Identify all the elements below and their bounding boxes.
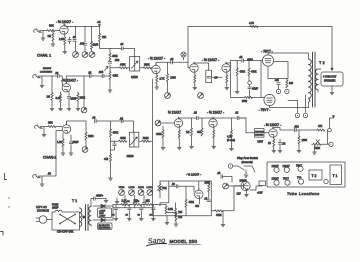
- tube V2b: [190, 62, 198, 72]
- filter cap 2: [129, 205, 133, 208]
- coupling cap .05 to V4: [231, 60, 242, 62]
- input jack J4: [33, 175, 41, 179]
- svg-text:470K: 470K: [120, 63, 126, 66]
- terminal circle trem B+: [328, 128, 332, 132]
- svg-text:1K: 1K: [268, 142, 271, 145]
- wire into box: [127, 67, 130, 69]
- osc right vertical: [210, 181, 212, 216]
- cathode resistor 470 osc: [199, 199, 201, 205]
- svg-text:40MF+: 40MF+: [96, 196, 104, 198]
- edge artifact bottom left: [1, 232, 4, 236]
- svg-text:1MEG: 1MEG: [131, 76, 138, 79]
- T2 box in chart: [309, 170, 322, 180]
- wire to transistor supply: [223, 186, 249, 211]
- speed pot arrow: [158, 186, 163, 191]
- socket 1: [274, 167, 279, 172]
- V3 cathode resistor: [226, 72, 228, 75]
- ground below J3: [43, 127, 45, 134]
- V9 plate wire: [273, 128, 295, 131]
- svg-text:10K: 10K: [146, 200, 151, 203]
- svg-text:SPEAKER: SPEAKER: [324, 80, 336, 83]
- svg-text:.002: .002: [115, 59, 120, 62]
- V7 cathode resistor 470: [178, 127, 180, 130]
- cap .02 on junction wire: [122, 47, 124, 50]
- tube V1b: [62, 82, 70, 92]
- wire to tone box: [111, 120, 122, 122]
- svg-text:.05: .05: [217, 172, 221, 175]
- svg-text:Tube Locations: Tube Locations: [287, 192, 320, 196]
- plate load resistor 100K: [167, 62, 169, 73]
- svg-text:+40MF: +40MF: [99, 216, 106, 218]
- tone stack ground: [108, 62, 111, 64]
- svg-text:50K: 50K: [163, 187, 168, 190]
- svg-text:CHAN-2: CHAN-2: [43, 156, 56, 160]
- svg-text:T 2: T 2: [319, 60, 325, 65]
- resistor 470K chan2: [109, 129, 111, 137]
- ground right: [222, 211, 224, 224]
- resistor 4.7K 5watt: [231, 118, 233, 130]
- wire cap onward: [172, 61, 188, 63]
- socket 2: [284, 167, 289, 172]
- svg-text:.02: .02: [120, 43, 124, 46]
- svg-text:TREB: TREB: [119, 187, 125, 189]
- cap .01 driver2: [237, 116, 239, 119]
- input jack J3: [35, 125, 43, 129]
- plate wire to cap: [156, 62, 171, 65]
- pot row 3: [138, 190, 144, 196]
- svg-text:470K: 470K: [216, 214, 222, 217]
- wire cap to resistor: [296, 129, 317, 131]
- wire J4 up: [39, 131, 62, 177]
- svg-text:40: 40: [112, 215, 115, 217]
- grounds mid: [191, 136, 193, 146]
- tone pot below: [167, 82, 169, 93]
- edge speck a: [8, 197, 9, 198]
- screen terminal circle: [248, 81, 252, 85]
- splitter left vertical: [230, 61, 232, 98]
- svg-text:+12V: +12V: [257, 192, 263, 195]
- svg-text:DRIVER: DRIVER: [255, 135, 263, 137]
- svg-text:7BY7: 7BY7: [296, 165, 303, 168]
- cap inside box: [207, 76, 210, 78]
- screen wire V4: [268, 62, 288, 79]
- V7 cathode ground: [178, 138, 180, 147]
- reverb unit box: [255, 129, 265, 138]
- long wire down from V2a to driver row: [152, 79, 154, 120]
- T2 primary winding: [309, 59, 312, 102]
- ground 1M row2: [51, 101, 53, 109]
- cathode cap 25MF row2: [68, 92, 70, 96]
- pot row 4: [147, 190, 153, 196]
- electrolytic can box: [98, 208, 112, 218]
- output terminal with dot: [329, 142, 333, 146]
- ground grid driver: [162, 138, 164, 147]
- T2 secondary winding: [315, 69, 318, 90]
- svg-text:4.7K: 4.7K: [249, 22, 254, 25]
- transistor Q1: [241, 181, 250, 190]
- wire pot to tube: [161, 122, 174, 124]
- edge artifact mark: [5, 174, 7, 180]
- V8 cathode resistor: [213, 127, 215, 130]
- logo underline swoosh: [147, 243, 167, 246]
- rail onward: [157, 205, 166, 207]
- V7 plate wire: [179, 117, 214, 120]
- wire plug to switch: [47, 212, 55, 220]
- wiper arrow tone stack: [105, 66, 109, 70]
- V2b ground: [194, 83, 196, 87]
- svg-text:(5 watt): (5 watt): [227, 139, 235, 142]
- volume pot chan2: [85, 140, 87, 146]
- svg-text:T 1: T 1: [72, 199, 77, 203]
- svg-text:470K: 470K: [120, 137, 126, 140]
- rectifier diode 2: [93, 219, 101, 221]
- svg-text:10K: 10K: [178, 211, 183, 214]
- pot treble chan1: [82, 52, 88, 58]
- V9 grounds: [273, 147, 275, 150]
- tube V3: [222, 62, 230, 72]
- splitter ground cone: [236, 76, 238, 91]
- svg-text:T 1: T 1: [333, 174, 338, 178]
- grid resistor 470K into box: [112, 67, 119, 69]
- T1 core: [86, 205, 89, 231]
- wire reverb box to V9 grid: [264, 132, 269, 134]
- input jack J2: [33, 75, 41, 79]
- resistor 470K osc: [185, 186, 187, 199]
- svg-text:BRIGHT: BRIGHT: [43, 68, 52, 70]
- cathode resistor 1.5K: [62, 133, 64, 139]
- coupling box between V2b and V3: [206, 70, 212, 82]
- svg-text:470K: 470K: [156, 133, 162, 136]
- socket 6: [298, 179, 303, 184]
- svg-text:SOURCE: SOURCE: [37, 209, 49, 213]
- first filter cap: [94, 197, 96, 200]
- svg-text:MODEL 250: MODEL 250: [170, 239, 198, 244]
- input pot driver: [155, 120, 161, 126]
- coupling cap .02 chan1: [73, 40, 76, 42]
- T1 box in chart: [330, 165, 342, 185]
- svg-text:.005: .005: [80, 43, 85, 46]
- wire to cap .005: [91, 75, 102, 77]
- svg-text:LOUDNESS: LOUDNESS: [40, 71, 53, 73]
- foot switch jack: [233, 166, 255, 174]
- speed pot resistor: [159, 181, 161, 184]
- plate resistor row2: [77, 92, 79, 94]
- cathode resistor row2: [60, 92, 62, 94]
- tone stack resistor 470K: [109, 48, 111, 53]
- pot wiper arrow: [131, 137, 138, 145]
- V9 cathode cap: [279, 139, 281, 142]
- T1 center tap dot: [82, 216, 85, 219]
- svg-text:2.2K: 2.2K: [122, 200, 127, 203]
- svg-text:25MF: 25MF: [71, 98, 78, 101]
- T1 primary winding: [80, 208, 82, 226]
- svg-text:LOUD: LOUD: [147, 187, 153, 189]
- plate wire row2: [66, 76, 89, 84]
- wire to tube: [151, 67, 152, 69]
- pot bass chan1: [89, 52, 95, 58]
- box to V3 grid wire: [212, 76, 223, 78]
- T2 core: [313, 52, 316, 107]
- volume pot row2 wire: [83, 76, 85, 107]
- filter res 2: [133, 203, 141, 205]
- secondary wires to speaker box: [318, 69, 321, 92]
- svg-text:2.2K: 2.2K: [59, 38, 64, 41]
- bottom resistor horizontal: [245, 96, 253, 98]
- wire up with arrow: [330, 118, 334, 128]
- wire cap .01 into reverb box: [239, 118, 255, 133]
- cap .005: [83, 44, 86, 46]
- small socket near T2: [324, 179, 328, 183]
- pot row 2: [129, 190, 135, 196]
- svg-text:220K: 220K: [93, 44, 99, 47]
- B+ dropping line: [99, 26, 101, 33]
- socket 3: [298, 166, 303, 171]
- output tube V4: [262, 55, 273, 66]
- arrow into box: [331, 68, 333, 70]
- tube V1 half 12AX7: [60, 24, 68, 34]
- svg-text:.05: .05: [48, 173, 52, 176]
- resistor 10K osc: [175, 203, 177, 209]
- svg-text:25MF: 25MF: [252, 88, 259, 91]
- switch dots: [59, 214, 61, 216]
- switch top wire: [52, 212, 80, 230]
- ground V2a cathode: [156, 83, 158, 86]
- bus wire under pots: [113, 206, 153, 208]
- grid wire J2: [59, 76, 62, 86]
- filter cap 3: [141, 205, 145, 208]
- top rail: [188, 26, 332, 28]
- silicon rect box: [98, 223, 113, 230]
- wire long from V2a area: [152, 120, 154, 216]
- tube V8: [209, 117, 217, 127]
- V2b plate wire to box: [194, 63, 209, 70]
- svg-text:.05: .05: [239, 56, 243, 59]
- heater terminal 2: [303, 113, 307, 117]
- wire to tube: [41, 126, 62, 128]
- svg-text:.02: .02: [120, 118, 124, 121]
- osc phase wire: [169, 185, 177, 187]
- cap .02 driver: [197, 116, 199, 119]
- V2b grid wire: [188, 62, 190, 68]
- cap .05 left of transistor: [221, 175, 223, 178]
- grid resistor 470K driver: [162, 126, 164, 130]
- transistor emitter ground: [246, 191, 248, 194]
- svg-text:.02: .02: [194, 112, 198, 115]
- resistor 100 between tubes: [286, 79, 288, 80]
- ground pot: [314, 146, 316, 152]
- B+ rail chan1: [65, 24, 100, 26]
- svg-text:- ½ 12AX7 -: - ½ 12AX7 -: [56, 20, 73, 24]
- output tube V5: [264, 94, 275, 105]
- V2b cathode resistor: [194, 72, 196, 75]
- svg-text:(tremolo): (tremolo): [242, 160, 253, 164]
- grid resistor 1M: [52, 31, 54, 34]
- chart rectangle: [267, 162, 345, 187]
- resistor 100K trem: [298, 130, 300, 136]
- svg-text:250K: 250K: [144, 63, 150, 66]
- terminal b: [285, 89, 289, 93]
- svg-text:250K: 250K: [205, 181, 211, 184]
- svg-text:100K: 100K: [170, 77, 176, 80]
- grounds chan2 cathode: [62, 147, 64, 153]
- tone box 1MEG pot: [129, 132, 138, 147]
- heater terminals below: [298, 95, 306, 113]
- wire node to rail corner: [184, 27, 189, 63]
- cathode resistor V2a: [156, 74, 158, 76]
- svg-text:.02: .02: [92, 117, 96, 120]
- svg-text:10K: 10K: [134, 200, 139, 203]
- svg-text:.005: .005: [99, 71, 104, 74]
- wires to pots: [76, 42, 92, 52]
- svg-text:500K: 500K: [315, 147, 321, 150]
- svg-text:5.6K: 5.6K: [168, 208, 173, 211]
- volume pot row2: [81, 107, 87, 113]
- svg-text:- ½ 12AX7 -: - ½ 12AX7 -: [264, 123, 281, 127]
- resistor 220K: [90, 42, 92, 50]
- ground osc left: [166, 216, 168, 222]
- svg-text:1MEG: 1MEG: [127, 155, 134, 158]
- ground plate res row2: [77, 102, 79, 109]
- wire jack to grid: [40, 30, 60, 32]
- cap .005 row2: [102, 74, 104, 77]
- splitter resistor 470K a: [236, 61, 238, 69]
- edge speck b: [8, 206, 9, 207]
- wire plate components: [76, 26, 92, 42]
- heater terminal 1: [295, 113, 299, 117]
- tube V2a: [152, 64, 160, 74]
- V8 plate wire: [213, 117, 246, 120]
- svg-text:1M: 1M: [186, 131, 189, 134]
- svg-text:.02: .02: [55, 72, 59, 75]
- splitter cap 25MF: [249, 85, 251, 87]
- svg-text:.002: .002: [294, 126, 299, 129]
- ground cap row2: [68, 99, 70, 108]
- V4 plate wire to transformer: [268, 53, 309, 59]
- svg-text:600V: 600V: [247, 59, 253, 62]
- resistor out of box: [139, 140, 142, 142]
- speaker ground: [331, 86, 333, 92]
- svg-text:+25: +25: [275, 79, 280, 82]
- small rect right: [259, 181, 266, 186]
- svg-text:UNIT: UNIT: [258, 141, 264, 144]
- pot row 1: [119, 190, 125, 196]
- svg-text:470K: 470K: [113, 75, 119, 78]
- switch X: [60, 215, 75, 224]
- ground foot switch: [244, 175, 248, 177]
- grid resistor 250K out of box: [140, 67, 144, 69]
- cathode cap 25MF: [69, 37, 71, 39]
- wire to long vertical: [150, 140, 153, 142]
- wire to V4 grid: [244, 60, 263, 62]
- svg-text:.02: .02: [172, 183, 176, 186]
- cap .02 tone: [121, 119, 123, 122]
- bias resistor 47K: [166, 212, 176, 215]
- splitter resistor 470K b: [248, 61, 250, 69]
- svg-text:BASS: BASS: [138, 186, 144, 189]
- ground 100K: [298, 144, 300, 150]
- rectifier diode 1: [93, 205, 101, 207]
- fuse symbol: [55, 210, 62, 212]
- pilot/node circle near rail start: [181, 52, 186, 57]
- long feedback wire from rail: [331, 27, 333, 71]
- bottom wire under tubes: [288, 100, 298, 102]
- filter res 1: [121, 203, 129, 205]
- svg-text:470: 470: [195, 205, 200, 208]
- rail resistor: [250, 25, 258, 27]
- plate wire osc: [198, 181, 200, 190]
- cap .002: [295, 128, 297, 131]
- svg-text:47K: 47K: [178, 216, 183, 219]
- plate wire chan2: [67, 121, 87, 132]
- node line down to tone junction: [100, 42, 122, 49]
- input jack J1: [34, 29, 42, 33]
- svg-text:2.2K: 2.2K: [56, 97, 61, 100]
- socket 4: [274, 180, 279, 185]
- svg-text:47K: 47K: [318, 125, 323, 128]
- filter res 3: [145, 203, 153, 205]
- wires transistor: [223, 177, 262, 191]
- pot below V2b: [198, 93, 204, 99]
- caps under pots: [125, 195, 144, 202]
- svg-text:47K: 47K: [104, 158, 109, 161]
- socket 5: [285, 180, 290, 185]
- svg-text:40: 40: [125, 215, 128, 217]
- svg-text:470K: 470K: [189, 201, 195, 204]
- ground below J2: [41, 77, 43, 86]
- svg-text:- 7BY7 -: - 7BY7 -: [259, 108, 271, 112]
- osc cap right: [208, 192, 210, 199]
- svg-text:68K: 68K: [48, 121, 53, 125]
- ground cathode row2: [60, 102, 62, 108]
- svg-text:REVERB: REVERB: [255, 131, 264, 133]
- svg-text:100K: 100K: [302, 139, 308, 142]
- svg-text:12V: 12V: [237, 193, 242, 196]
- svg-text:220K: 220K: [80, 97, 86, 100]
- svg-text:4 OHM OUT: 4 OHM OUT: [323, 76, 337, 79]
- grid wire: [171, 61, 173, 63]
- osc tube V10: [195, 188, 203, 198]
- wire onward chan2: [96, 121, 110, 129]
- ground below J1: [42, 31, 44, 38]
- wire cap to grid: [178, 186, 194, 192]
- svg-text:1M: 1M: [47, 96, 50, 99]
- bias resistor 5.6K: [165, 206, 167, 214]
- splitter bottom wire: [231, 90, 262, 98]
- ground below J4: [41, 177, 43, 184]
- wire resistor b to terminal: [248, 76, 250, 81]
- wire down to depth pot: [327, 130, 329, 144]
- svg-text:100: 100: [289, 82, 294, 85]
- wiper arrow chan1 vol: [131, 61, 138, 68]
- V3 plate wire: [226, 62, 231, 65]
- svg-text:40: 40: [137, 215, 140, 217]
- mixing resistor 470K row2: [109, 71, 111, 73]
- plate resistor 220K chan2: [85, 132, 87, 140]
- svg-text:ON-OFF SW.: ON-OFF SW.: [57, 230, 74, 234]
- bypass cap chan2 stack: [114, 141, 116, 143]
- +B arrow: [99, 25, 101, 27]
- svg-text:LOUD: LOUD: [129, 187, 135, 189]
- svg-text:25MF: 25MF: [73, 141, 80, 144]
- svg-text:510K: 510K: [143, 137, 149, 140]
- svg-text:2AMP: 2AMP: [52, 207, 59, 210]
- ground 4.7K: [231, 138, 233, 148]
- svg-text:.02: .02: [170, 58, 174, 61]
- resistor into box: [111, 140, 119, 142]
- V3 cathode ground: [226, 83, 228, 87]
- resistor 1M mid: [191, 118, 193, 128]
- ground bias: [175, 221, 177, 224]
